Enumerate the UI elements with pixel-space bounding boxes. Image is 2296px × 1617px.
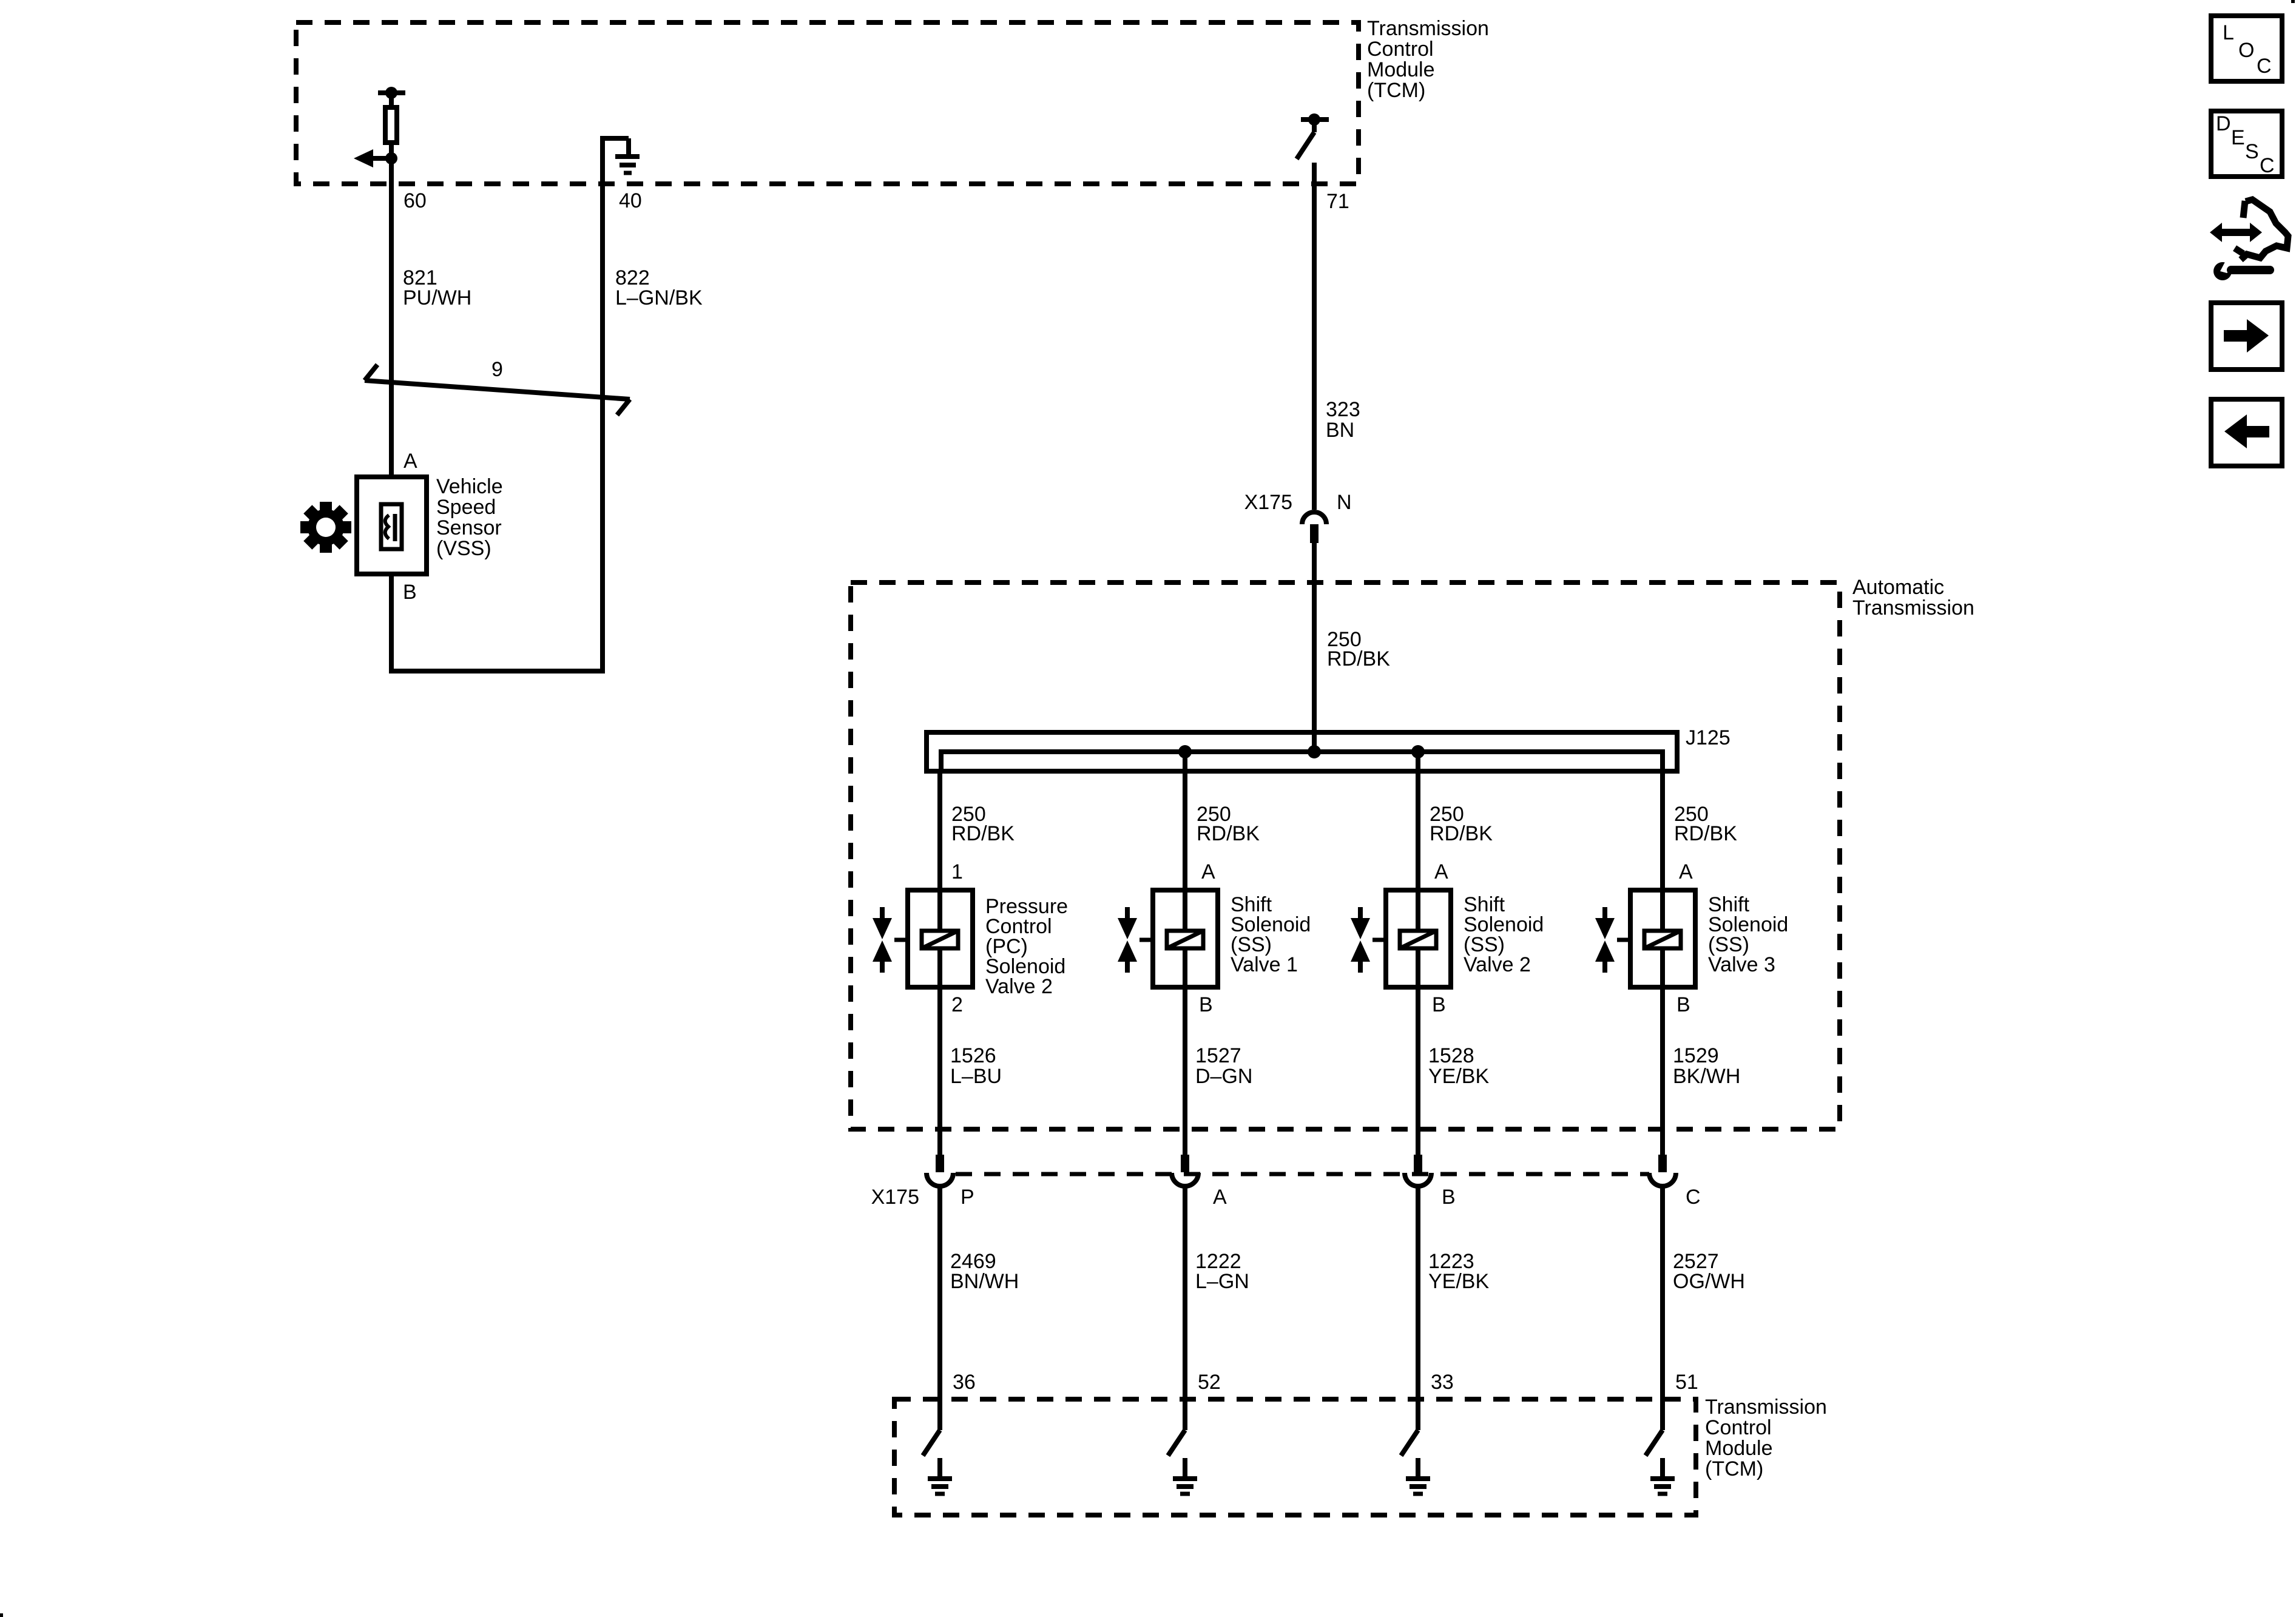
svg-text:A: A <box>1201 860 1215 883</box>
svg-text:Vehicle: Vehicle <box>436 475 503 498</box>
svg-text:YE/BK: YE/BK <box>1428 1065 1489 1088</box>
svg-text:P: P <box>961 1186 974 1209</box>
svg-text:L: L <box>2223 21 2234 44</box>
svg-text:2: 2 <box>951 993 963 1016</box>
svg-text:YE/BK: YE/BK <box>1428 1270 1489 1293</box>
svg-text:BK/WH: BK/WH <box>1673 1065 1740 1088</box>
svg-text:A: A <box>1434 860 1448 883</box>
svg-text:Speed: Speed <box>436 496 496 519</box>
svg-text:51: 51 <box>1675 1371 1698 1394</box>
svg-text:323: 323 <box>1326 398 1360 421</box>
svg-text:1529: 1529 <box>1673 1044 1719 1067</box>
svg-text:B: B <box>1676 993 1690 1016</box>
svg-text:33: 33 <box>1431 1371 1454 1394</box>
svg-text:PU/WH: PU/WH <box>403 286 471 309</box>
svg-text:BN/WH: BN/WH <box>950 1270 1019 1293</box>
svg-text:(TCM): (TCM) <box>1367 79 1425 102</box>
svg-text:Valve 1: Valve 1 <box>1231 953 1298 976</box>
svg-text:C: C <box>2257 55 2272 78</box>
svg-text:D–GN: D–GN <box>1195 1065 1252 1088</box>
svg-text:L–GN: L–GN <box>1195 1270 1249 1293</box>
svg-text:B: B <box>1199 993 1213 1016</box>
svg-text:B: B <box>1442 1186 1456 1209</box>
svg-text:RD/BK: RD/BK <box>1430 822 1493 845</box>
svg-text:J125: J125 <box>1686 726 1730 749</box>
svg-text:Valve 2: Valve 2 <box>1464 953 1531 976</box>
svg-text:RD/BK: RD/BK <box>1674 822 1737 845</box>
svg-text:A: A <box>403 450 417 473</box>
svg-text:C: C <box>1686 1186 1701 1209</box>
svg-text:A: A <box>1213 1186 1227 1209</box>
svg-text:71: 71 <box>1326 190 1349 213</box>
svg-text:D: D <box>2216 112 2231 135</box>
svg-text:36: 36 <box>953 1371 976 1394</box>
svg-text:9: 9 <box>491 358 503 381</box>
svg-text:Transmission: Transmission <box>1705 1396 1827 1419</box>
svg-text:L–BU: L–BU <box>950 1065 1002 1088</box>
svg-text:1528: 1528 <box>1428 1044 1474 1067</box>
svg-text:B: B <box>403 581 417 604</box>
svg-text:O: O <box>2238 39 2254 62</box>
svg-text:Control: Control <box>1367 38 1434 61</box>
svg-text:N: N <box>1337 491 1352 514</box>
svg-text:1527: 1527 <box>1195 1044 1241 1067</box>
svg-text:Control: Control <box>1705 1416 1772 1439</box>
svg-text:Sensor: Sensor <box>436 516 502 539</box>
svg-text:Valve 3: Valve 3 <box>1708 953 1775 976</box>
svg-text:A: A <box>1679 860 1693 883</box>
svg-text:RD/BK: RD/BK <box>951 822 1015 845</box>
svg-text:Module: Module <box>1705 1437 1773 1460</box>
svg-text:X175: X175 <box>1244 491 1292 514</box>
svg-text:Module: Module <box>1367 58 1435 81</box>
svg-text:Valve 2: Valve 2 <box>985 975 1053 998</box>
svg-text:1: 1 <box>951 860 963 883</box>
svg-text:C: C <box>2260 154 2275 177</box>
svg-text:Transmission: Transmission <box>1852 596 1974 619</box>
svg-text:X175: X175 <box>871 1186 919 1209</box>
svg-text:S: S <box>2245 140 2259 163</box>
svg-text:(VSS): (VSS) <box>436 537 491 560</box>
svg-text:Automatic: Automatic <box>1852 576 1944 599</box>
svg-text:1526: 1526 <box>950 1044 996 1067</box>
svg-text:RD/BK: RD/BK <box>1197 822 1260 845</box>
svg-text:L–GN/BK: L–GN/BK <box>615 286 703 309</box>
svg-text:(TCM): (TCM) <box>1705 1457 1763 1480</box>
svg-text:E: E <box>2231 126 2245 149</box>
svg-text:Transmission: Transmission <box>1367 17 1489 40</box>
svg-text:OG/WH: OG/WH <box>1673 1270 1745 1293</box>
svg-text:60: 60 <box>403 189 427 212</box>
svg-text:40: 40 <box>619 189 642 212</box>
svg-text:BN: BN <box>1326 419 1354 442</box>
svg-text:B: B <box>1432 993 1446 1016</box>
svg-text:RD/BK: RD/BK <box>1327 647 1390 670</box>
svg-text:52: 52 <box>1198 1371 1221 1394</box>
